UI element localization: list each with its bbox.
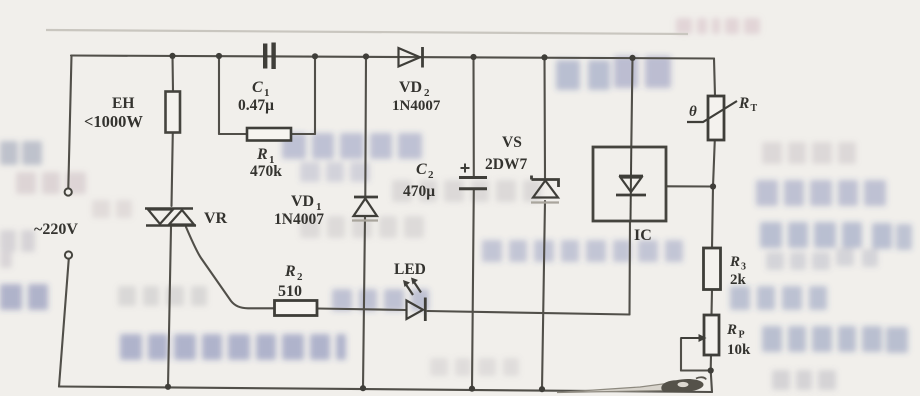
wire right column top (to thermistor)	[714, 59, 715, 97]
svg-text:1N4007: 1N4007	[274, 211, 324, 228]
svg-text:C: C	[252, 79, 263, 96]
wire left lower (from N terminal to bottom bus)	[59, 259, 69, 387]
zener VS	[531, 176, 559, 203]
wire IC column top	[631, 58, 632, 147]
svg-text:T: T	[751, 103, 758, 114]
svg-text:EH: EH	[112, 95, 134, 112]
svg-text:2k: 2k	[730, 272, 747, 288]
capacitor C1	[263, 43, 276, 70]
wire node W to bottom bus	[711, 371, 712, 393]
wire thermistor to node T	[713, 140, 715, 187]
wire R1 left lead	[219, 133, 247, 135]
wire node T to R3	[712, 187, 713, 249]
diode VD2	[399, 47, 423, 68]
wire VD1 column bottom	[363, 217, 365, 388]
wire bottom bus	[59, 387, 712, 393]
wire IC right pin to node T	[666, 185, 713, 187]
svg-text:470k: 470k	[250, 163, 282, 180]
capacitor C2 (electrolytic, + top)	[459, 164, 487, 189]
svg-text:2: 2	[428, 169, 434, 181]
svg-text:10k: 10k	[727, 342, 751, 358]
svg-text:R: R	[726, 322, 737, 338]
wire R1 right lead	[291, 133, 315, 135]
svg-text:2: 2	[297, 271, 303, 283]
IC internal line	[630, 147, 633, 221]
wire RP bottom to node W	[710, 355, 712, 371]
terminal N (~220V)	[65, 251, 72, 258]
svg-text:VD: VD	[291, 193, 314, 210]
svg-text:2DW7: 2DW7	[485, 156, 527, 173]
wire VD1 column top	[364, 56, 367, 197]
svg-text:R: R	[729, 254, 740, 270]
thermistor RT	[687, 96, 737, 140]
svg-text:θ: θ	[689, 104, 697, 120]
wire triac VR to bottom bus	[168, 227, 171, 387]
svg-text:<1000W: <1000W	[84, 112, 143, 131]
wire C2 column top	[472, 57, 474, 176]
svg-text:~220V: ~220V	[34, 221, 78, 238]
wire VS column bottom	[542, 201, 545, 389]
svg-text:470μ: 470μ	[403, 183, 435, 200]
IC internal diode	[616, 176, 646, 195]
triac VR	[145, 209, 196, 226]
wire R3 to RP	[710, 290, 713, 316]
svg-text:LED: LED	[394, 261, 426, 278]
wire RP wiper to node W	[681, 369, 711, 371]
wire EH bottom to triac VR	[172, 133, 173, 207]
svg-text:R: R	[284, 263, 296, 280]
svg-text:VR: VR	[204, 210, 228, 227]
svg-text:P: P	[739, 330, 745, 341]
svg-text:0.47μ: 0.47μ	[238, 97, 274, 114]
wire IC bottom pin down	[628, 221, 631, 315]
IC U1 box	[593, 147, 666, 221]
wire left upper (to L terminal)	[68, 56, 71, 189]
wire C1 left branch down	[218, 56, 220, 134]
svg-text:510: 510	[278, 283, 302, 300]
junction dots bottom bus	[165, 384, 545, 393]
wire LED to R2	[317, 309, 406, 311]
node W dot	[708, 367, 714, 373]
LED	[405, 281, 425, 322]
wire RP wiper down	[680, 338, 682, 371]
resistor R3	[704, 248, 721, 290]
svg-text:C: C	[416, 161, 427, 178]
node T dot	[710, 183, 716, 189]
wire C2 column bottom	[472, 190, 474, 389]
svg-text:VD: VD	[399, 79, 422, 96]
resistor R2	[275, 301, 318, 316]
LED arrowheads	[403, 278, 418, 288]
svg-text:3: 3	[741, 262, 746, 273]
potentiometer RP	[681, 315, 719, 355]
svg-text:VS: VS	[502, 134, 522, 151]
terminal L (~220V)	[65, 188, 72, 195]
wire top bus	[71, 56, 714, 59]
RP wiper arrowhead	[699, 334, 707, 342]
wire IC bottom to LED (node G)	[428, 311, 630, 315]
junction dots top bus	[169, 53, 635, 61]
wire EH column top	[171, 56, 174, 92]
svg-text:IC: IC	[634, 227, 652, 244]
wire VS column top	[543, 57, 546, 178]
wire C1 right branch up	[314, 56, 316, 134]
svg-text:R: R	[256, 146, 268, 163]
svg-text:1N4007: 1N4007	[392, 98, 441, 114]
svg-text:R: R	[738, 95, 749, 112]
diode VD1	[352, 197, 378, 221]
wire gate of VR to R2	[186, 227, 274, 308]
resistor R1	[247, 128, 291, 141]
heater EH	[166, 92, 181, 133]
